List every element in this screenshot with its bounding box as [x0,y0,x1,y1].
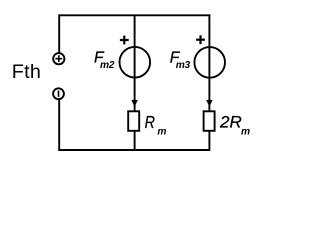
svg-text:m: m [157,127,166,138]
svg-text:m: m [241,127,250,138]
svg-text:3: 3 [185,60,191,71]
plus sign of F_m3 [196,35,205,44]
plus sign of F_m2 [120,36,129,45]
wire top horizontal [59,14,209,16]
arrowhead branch 2 [206,100,212,107]
terminal plus (top port terminal) [53,53,64,64]
label F_m2 [94,49,115,71]
svg-text:m: m [100,60,109,71]
label R_m [145,113,167,138]
wire left upper vertical [58,14,60,52]
svg-text:m: m [176,60,185,71]
wire branch 2 below box [208,131,210,150]
wire bottom horizontal [58,149,210,151]
source F_m3 circle [194,47,225,78]
svg-text:Fth: Fth [12,61,41,83]
svg-text:2R: 2R [219,112,242,131]
resistor 2R_m box [204,111,215,131]
wire branch 1 below box [134,131,136,150]
wire branch 2 vertical [208,14,210,111]
wire branch 1 vertical [134,15,136,111]
wire left lower vertical [58,99,60,151]
terminal minus (bottom port terminal) [53,88,64,99]
arrowhead branch 1 [131,100,137,107]
label F_m3 [170,49,191,71]
source F_m2 circle [120,47,151,78]
svg-text:2: 2 [108,60,115,71]
svg-text:R: R [145,113,156,133]
resistor R_m box [128,111,139,131]
label 2R_m [219,112,250,137]
